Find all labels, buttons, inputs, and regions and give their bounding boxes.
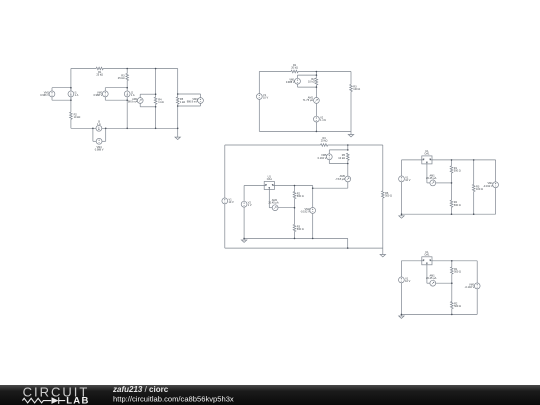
junction C1 (70, 99, 72, 101)
ground C3 outer (380, 253, 385, 257)
wire C5 rail bottom stub (451, 309, 453, 315)
wire C4 rail1 mid (451, 173, 453, 200)
wire C1 loopD top (178, 93, 201, 95)
svg-text:OA1: OA1 (424, 253, 430, 257)
ammeter AM1 on C5 branch (430, 280, 436, 286)
resistor R5 (10 k&#937;) vertical inside C3 loop (347, 153, 350, 160)
wire C1 left rail lower (70, 119, 72, 128)
svg-text:LAB: LAB (66, 396, 89, 405)
wire C3 inner bottom drop (347, 238, 349, 248)
resistor R2 (10 k&#937;) vertical on C1 left rail (70, 112, 73, 119)
svg-text:25 kΩ: 25 kΩ (118, 76, 125, 80)
junction C3 (294, 185, 296, 187)
wire C4 right rail lower (495, 188, 497, 215)
wire C2 right rail upper (350, 72, 352, 85)
op-amp U1 (boxed IC) in C3 (264, 182, 274, 190)
junction C1 (105, 128, 107, 130)
junction C3 (347, 149, 349, 151)
wire C1 loopE bottom-left (93, 140, 96, 142)
svg-text:500 Ω: 500 Ω (454, 169, 461, 173)
wire C4 rail1 bottom stub (451, 207, 453, 214)
svg-text:-0.192 V: -0.192 V (483, 184, 493, 188)
wire C3 AM5 lower stub (347, 182, 349, 188)
wire C3 outer-left rail upper (224, 145, 226, 198)
svg-text:1 A: 1 A (131, 93, 135, 97)
wire C5 AM1 left stub (427, 282, 430, 284)
ground C5 (399, 314, 404, 318)
ammeter AM5 on C3 branch (345, 176, 351, 182)
wire C1 loopE bottom-right (102, 140, 106, 142)
svg-text:500 Ω: 500 Ω (454, 270, 461, 274)
svg-text:10 kΩ: 10 kΩ (74, 115, 81, 119)
wire C5 right rail lower (476, 289, 478, 315)
ground C3 inner (241, 238, 246, 242)
ground C4 (399, 214, 404, 218)
wire C5 AM1 to rail (436, 282, 452, 284)
ammeter AM2 on C3 inner branch (272, 205, 278, 211)
junction C1 (126, 99, 128, 101)
junction C4 (451, 213, 453, 215)
wire C3 top-left segment (225, 144, 321, 146)
junction C1 (177, 93, 179, 95)
wire C4 right rail upper (495, 160, 497, 182)
voltmeter VM1 in C2 loop (295, 78, 301, 84)
junction C4 (401, 213, 403, 215)
wire C4 U1 bottom pin down (426, 164, 428, 183)
wire C3 inner top mid (274, 185, 294, 187)
svg-text:1 V: 1 V (248, 203, 252, 207)
wire C3 inner node stub (312, 186, 314, 189)
svg-text:986.9 mV: 986.9 mV (187, 100, 198, 104)
svg-text:0.988 V: 0.988 V (286, 80, 295, 84)
svg-text:20.45 μA: 20.45 μA (426, 176, 437, 180)
svg-text:1 A: 1 A (75, 93, 79, 97)
circuit 2: voltage divider bench (top-middle) (256, 63, 360, 137)
op-amp U1 (boxed IC) in C5 (422, 257, 432, 265)
circuit 4: boxed IC with load resistors (right middle) (399, 149, 499, 218)
resistor R4 (20 k&#937;) horizontal on C3 top wire (321, 144, 328, 147)
svg-text:10 V: 10 V (405, 279, 411, 283)
voltmeter VM2 on C3 inner rail (310, 208, 316, 214)
resistor R1 (20 k&#937;) horizontal on C2 top wire (291, 70, 298, 73)
wire C2 VM1 loop top (298, 74, 317, 76)
wire C4 rail2 lower (473, 192, 475, 215)
svg-text:1 kΩ: 1 kΩ (180, 100, 185, 104)
wire C1 rail2 top stub (126, 69, 128, 74)
junction C3 (294, 238, 296, 240)
wire C2 VM1 loop left lower stub (297, 84, 299, 87)
junction C3 (294, 207, 296, 209)
junction C1 (155, 68, 157, 70)
wire C3 VM2 rail upper (312, 188, 314, 207)
circuit 1: measurement test bench (top-left) (40, 67, 203, 151)
wire C3 top-right segment (328, 144, 383, 146)
svg-text:1 kΩ: 1 kΩ (158, 100, 163, 104)
wire C3 AM2 to R2 rail (278, 207, 295, 209)
voltmeter VM2 in C1 loop B (102, 91, 108, 97)
wire C2 left rail upper (258, 72, 260, 94)
current source I2 on C1 rail2 (124, 91, 130, 97)
svg-text:-0.192 V: -0.192 V (300, 209, 310, 213)
wire C3 R2 rail top stub (294, 186, 296, 192)
voltmeter VM1 on C4 right rail (493, 182, 499, 188)
wire C1 loopC top (140, 93, 155, 95)
ammeter AM1 on C2 mid rail (314, 98, 320, 104)
footer bar (0, 385, 540, 405)
wire C3 R5 rail lower stub (347, 160, 349, 163)
wire C1 right rail upper (177, 69, 179, 98)
ammeter AM1 in C1 loop C (137, 98, 143, 104)
junction C2 (316, 74, 318, 76)
wire C3 AM5 link to inner node (313, 187, 348, 189)
wire C1 loopD right lower stub (200, 103, 202, 106)
svg-text:20 kΩ: 20 kΩ (321, 139, 328, 143)
current source I1 on C1 left rail (68, 91, 74, 97)
junction C4 (473, 213, 475, 215)
wire C1 rail2 lower (126, 97, 128, 129)
junction C1 (126, 68, 128, 70)
wire C4 AM1 left stub (427, 182, 430, 184)
wire C1 loopA left lower stub (51, 97, 53, 100)
junction C3 (312, 187, 314, 189)
voltmeter VM3 in C1 loop D (198, 98, 204, 104)
wire C3 right rail upper (382, 145, 384, 191)
wire C3 VM5 loop top (329, 149, 348, 151)
wire C4 AM1 to rail (436, 182, 452, 184)
wire C2 mid rail top (315, 72, 317, 78)
svg-text:10 V: 10 V (229, 200, 235, 204)
wire C4 top-right segment (432, 159, 496, 161)
junction C1 (126, 87, 128, 89)
resistor R1 (500 &#937;) vertical on C5 rail (451, 267, 454, 274)
wire C3 rail to AM5 (347, 164, 349, 177)
wire C1 loopD right upper stub (200, 94, 202, 98)
wire C2 VM1 loop bottom (298, 86, 317, 88)
wire C5 rail mid (451, 274, 453, 301)
circuit 5: boxed IC with load resistors (bottom right) (399, 250, 481, 318)
wire C3 VM5 loop bottom (329, 163, 348, 165)
junction C3 (347, 144, 349, 146)
wire C1 loopE left (92, 128, 94, 141)
junction C3 (347, 247, 349, 249)
resistor R6 (500 &#937;) vertical on C3 right rail (382, 191, 385, 198)
svg-text:25 kΩ: 25 kΩ (96, 73, 103, 77)
wire C5 right rail upper (476, 261, 478, 283)
wire C2 top-right segment (298, 71, 351, 73)
wire C1 loopB bottom (105, 99, 127, 101)
junction C2 (316, 131, 318, 133)
wire C5 U1 bottom pin down (426, 265, 428, 283)
current source I3 on C1 bottom wire (96, 125, 102, 131)
resistor R2 (500 &#937;) vertical on C5 rail (451, 302, 454, 309)
wire C1 top-right segment (103, 68, 177, 70)
resistor R3 (100 &#937;) vertical on C2 right rail (350, 84, 353, 91)
logo diode symbol (52, 397, 59, 404)
voltage source V1 on C5 left rail (399, 277, 405, 283)
wire C1 rail3 upper (155, 69, 157, 98)
resistor R4 (1 k&#937;) vertical on C1 rail3 (154, 97, 157, 104)
junction C5 (451, 282, 453, 284)
resistor R5 (1 k&#937;) vertical on C1 right rail (176, 97, 179, 104)
resistor R2 (500 &#937;) vertical on C4 rail1 (450, 200, 453, 207)
svg-text:0.192 V: 0.192 V (318, 156, 327, 160)
svg-text:500 Ω: 500 Ω (385, 194, 392, 198)
svg-text:-0.192 V: -0.192 V (465, 285, 475, 289)
voltmeter VM4 in C1 loop E (96, 138, 102, 144)
wire C3 R5 rail top stub (347, 145, 349, 150)
wire C4 bottom wire (402, 213, 496, 215)
ammeter AM1 on C4 branch (430, 180, 436, 186)
voltage source V2 on C2 mid rail (314, 116, 320, 122)
wire C1 loopE right (105, 128, 107, 141)
junction C3 (312, 238, 314, 240)
wire C1 left rail upper (70, 69, 72, 113)
svg-text:100 Ω: 100 Ω (476, 187, 483, 191)
wire C3 inner rail bottom stub (294, 232, 296, 239)
wire C5 bottom wire (401, 313, 477, 315)
logo resistor zigzag (22, 398, 51, 403)
wire C3 VM5 upper stub (328, 150, 330, 154)
svg-text:500 Ω: 500 Ω (297, 194, 304, 198)
svg-text:98.9 mA: 98.9 mA (128, 100, 138, 104)
wire C1 loopB top (105, 87, 127, 89)
resistor R3 (500 &#937;) vertical on C3 inner rail (293, 224, 296, 231)
wire C2 right rail lower (350, 92, 352, 133)
voltage source V1 on C2 left rail (256, 94, 262, 100)
wire C3 ground stub (382, 248, 384, 253)
wire C4 rail2 upper (473, 160, 475, 185)
junction C3 (243, 238, 245, 240)
junction C2 (316, 71, 318, 73)
wire C1 rail2 mid stub (126, 81, 128, 91)
voltage source V1 on C3 outer-left rail (222, 198, 228, 204)
resistor R2 (10 k&#937;) vertical on C2 mid rail (315, 78, 318, 85)
svg-text:20.45 μA: 20.45 μA (268, 201, 279, 205)
junction C1 (177, 128, 179, 130)
wire C3 VM2 rail lower (312, 213, 314, 238)
wire C5 left rail upper (400, 261, 402, 277)
svg-text:1 mV: 1 mV (320, 118, 326, 122)
junction C5 (451, 314, 453, 316)
wire C1 right rail lower (177, 104, 179, 135)
wire C5 left rail lower (400, 283, 402, 315)
wire C3 VM5 lower stub (328, 160, 330, 164)
voltage source V2 on C3 inner-left rail (241, 201, 247, 207)
wire C2 VM1 loop left upper stub (297, 75, 299, 78)
junction C3 (347, 163, 349, 165)
svg-text:10 V: 10 V (263, 96, 269, 100)
svg-text:100 Ω: 100 Ω (353, 87, 360, 91)
junction C1 (126, 128, 128, 130)
wire C2 top-left segment (259, 71, 291, 73)
wire C5 rail top stub (451, 261, 453, 267)
wire C5 top-left segment (401, 260, 421, 262)
ground C2 (348, 133, 353, 137)
junction C1 (92, 128, 94, 130)
wire C2 left rail lower (258, 99, 260, 131)
svg-text:10 V: 10 V (405, 178, 411, 182)
wire C3 U1 bottom pin down (268, 190, 270, 208)
junction C1 (155, 128, 157, 130)
wire C1 top-left segment (71, 68, 96, 70)
wire C3 inner bottom wire (244, 237, 348, 239)
svg-text:71.75 μA: 71.75 μA (303, 98, 314, 102)
wire C1 loopC bottom (140, 106, 155, 108)
junction C5 (401, 314, 403, 316)
svg-text:1 A: 1 A (97, 122, 101, 126)
voltmeter VM1 in C1 loop A (49, 91, 55, 97)
junction C1 (177, 105, 179, 107)
wire C2 mid rail seg2 (315, 85, 317, 98)
junction C1 (70, 87, 72, 89)
resistor R3 (25 k&#937;) vertical on C1 rail2 (126, 73, 129, 80)
junction C1 (155, 93, 157, 95)
wire C1 rail3 lower (155, 104, 157, 128)
wire C1 loopC left lower stub (139, 103, 141, 106)
resistor R1 (25 k&#937;) horizontal on C1 top wire (96, 67, 103, 70)
wire C1 loopA left upper stub (51, 88, 53, 91)
junction C2 (316, 86, 318, 88)
op-amp U1 (boxed IC) in C4 (422, 156, 432, 164)
wire C3 outer-left rail lower (224, 204, 226, 248)
resistor R2 (500 &#937;) vertical on C3 inner rail (293, 192, 296, 199)
wire C2 bottom wire (259, 130, 351, 132)
junction C5 (451, 260, 453, 262)
svg-text:OA1: OA1 (424, 152, 430, 156)
svg-text:-73.8 μA: -73.8 μA (335, 177, 345, 181)
junction C4 (473, 159, 475, 161)
wire C3 inner-left rail lower (243, 207, 245, 238)
wire C3 inner top right (295, 185, 313, 187)
wire C1 left rail at I1 top (70, 88, 72, 91)
wire C3 inner top left (244, 185, 264, 187)
wire C3 inner-left rail upper (243, 186, 245, 202)
svg-text:10 kΩ: 10 kΩ (308, 80, 315, 84)
voltage source V1 on C4 left rail (399, 176, 405, 182)
svg-text:OA1: OA1 (267, 177, 273, 181)
junction C4 (451, 182, 453, 184)
svg-text:0.988 V: 0.988 V (95, 148, 104, 152)
svg-text:500 Ω: 500 Ω (454, 203, 461, 207)
wire C3 right rail lower (382, 198, 384, 248)
svg-text:0.966 V: 0.966 V (40, 93, 49, 97)
wire C4 top-left segment (402, 159, 422, 161)
wire C4 left rail upper (401, 160, 403, 176)
resistor R3 (100 &#937;) vertical on C4 rail2 (472, 184, 475, 191)
wire C1 loopD bottom (178, 105, 201, 107)
svg-text:20.45 μA: 20.45 μA (426, 276, 437, 280)
junction C1 (155, 106, 157, 108)
wire C3 inner rail mid (294, 199, 296, 225)
circuit 3: op-amp style network (middle) (222, 136, 392, 257)
junction C4 (451, 159, 453, 161)
wire C1 loopA top (52, 87, 71, 89)
wire C2 mid rail seg3 (315, 103, 317, 116)
wire C1 left rail at I1 bottom (70, 97, 72, 100)
svg-text:zafu213 / ciorc: zafu213 / ciorc (112, 385, 169, 394)
wire C1 loopB left upper stub (104, 88, 106, 91)
wire C4 left rail lower (401, 182, 403, 214)
svg-text:500 Ω: 500 Ω (454, 304, 461, 308)
ground C1 (175, 136, 180, 140)
svg-text:500 Ω: 500 Ω (297, 227, 304, 231)
wire C1 loopC left upper stub (139, 94, 141, 97)
wire C3 AM2 left stub (269, 207, 272, 209)
svg-text:http://circuitlab.com/ca8b56kv: http://circuitlab.com/ca8b56kvp5h3x (113, 395, 234, 404)
voltmeter VM5 in C3 loop (326, 154, 332, 160)
wire C1 loopA bottom (52, 99, 71, 101)
svg-text:20 kΩ: 20 kΩ (291, 66, 298, 70)
voltmeter VM1 on C5 right rail (474, 283, 480, 289)
wire C5 top-right segment (432, 260, 477, 262)
resistor R1 (500 &#937;) vertical on C4 rail1 (450, 166, 453, 173)
wire C1 bottom-right segment (102, 127, 178, 129)
wire C1 loopB left lower stub (104, 97, 106, 100)
svg-text:10 kΩ: 10 kΩ (338, 156, 345, 160)
svg-text:0.988 V: 0.988 V (94, 93, 103, 97)
wire C2 mid rail bottom (315, 122, 317, 131)
wire C3 outer bottom wire (225, 247, 383, 249)
wire C1 bottom-left segment (71, 127, 96, 129)
wire C4 rail1 top stub (451, 160, 453, 166)
